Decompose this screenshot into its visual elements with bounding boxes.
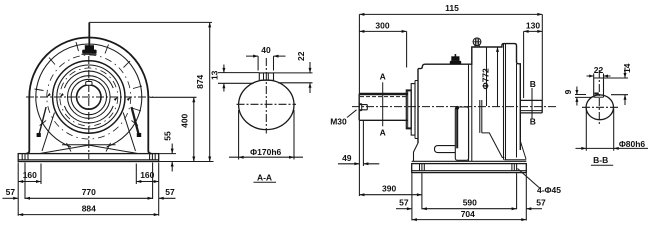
dimension 57 left (side view): [396, 198, 412, 211]
svg-text:B: B: [530, 79, 536, 89]
clamp bolt left: [37, 107, 47, 137]
extension lines bottom (side view): [412, 173, 526, 220]
breather plug: [473, 38, 481, 47]
base plate (side view): [412, 164, 527, 173]
base plate (front view): [18, 154, 159, 162]
svg-text:390: 390: [382, 184, 396, 194]
label 4-phi45 with leader: [518, 169, 562, 196]
svg-text:590: 590: [463, 198, 477, 208]
svg-text:Φ170h6: Φ170h6: [250, 147, 281, 157]
dimension 770: [25, 187, 153, 200]
grease fitting (side view): [450, 54, 461, 64]
B-B centerlines: [582, 70, 619, 126]
dimension 390: [359, 184, 422, 197]
ring case internal lines: [480, 44, 517, 160]
svg-text:22: 22: [296, 51, 306, 61]
centerline vertical (front view): [88, 56, 90, 159]
dimension 22 (A-A): [274, 51, 313, 93]
dimension 57 right (side view): [526, 198, 546, 211]
svg-text:400: 400: [179, 113, 189, 127]
svg-text:55: 55: [163, 131, 173, 141]
svg-text:300: 300: [375, 21, 389, 31]
svg-text:57: 57: [536, 198, 546, 208]
housing boss circle r36: [53, 61, 125, 133]
dimension 130: [524, 21, 543, 99]
section line A-A: [380, 72, 386, 138]
oil drain boss: [435, 146, 456, 153]
svg-text:A: A: [380, 128, 386, 138]
svg-text:57: 57: [6, 187, 16, 197]
B-B key: [594, 78, 604, 97]
dimension 13: [209, 65, 259, 92]
svg-text:40: 40: [261, 45, 271, 55]
input bearing cover: [406, 81, 418, 139]
dimension 40: [246, 45, 286, 71]
housing arch outline: [26, 38, 151, 154]
shaft bore circle r12.2: [77, 85, 101, 109]
dimension 9: [563, 87, 593, 106]
svg-text:B: B: [530, 117, 536, 127]
dimension 57 right bottom: [159, 187, 176, 200]
circle r32: [57, 65, 121, 129]
dimension 300: [359, 21, 406, 68]
clamp bolt right: [132, 107, 142, 137]
svg-text:Φ80h6: Φ80h6: [619, 139, 646, 149]
svg-text:4-Φ45: 4-Φ45: [537, 185, 561, 195]
label A-A: [254, 172, 277, 182]
svg-text:A: A: [380, 72, 386, 82]
svg-text:22: 22: [594, 65, 604, 75]
svg-text:57: 57: [165, 187, 175, 197]
dimension 160 right: [136, 164, 158, 185]
oil gauge: [455, 107, 468, 160]
dimension 55 (base height): [159, 131, 176, 171]
svg-text:M30: M30: [330, 117, 347, 127]
centerline (side view): [352, 106, 556, 108]
svg-text:13: 13: [209, 70, 219, 80]
svg-text:14: 14: [622, 63, 632, 73]
dimension 704: [412, 209, 526, 221]
svg-text:704: 704: [461, 209, 475, 219]
circle r21.3: [68, 76, 111, 119]
body bottom / feet: [412, 141, 527, 161]
A-A shaft circle: [239, 80, 294, 130]
svg-text:A-A: A-A: [257, 172, 272, 182]
dimension 400: [150, 97, 197, 161]
svg-text:B-B: B-B: [593, 155, 608, 165]
chain arc r53 with ticks: [35, 42, 143, 152]
dimension phi80h6: [576, 109, 649, 151]
body front face inner lines: [469, 64, 472, 161]
A-A centerlines: [237, 58, 297, 134]
dipstick: [455, 106, 459, 148]
dimension 115: [359, 3, 542, 100]
svg-text:57: 57: [399, 198, 409, 208]
svg-text:Φ772: Φ772: [480, 68, 490, 89]
dimension 14: [604, 63, 632, 105]
label B-B: [591, 155, 613, 165]
phi772 dimension: [480, 47, 499, 107]
circle r26: [64, 71, 113, 123]
chain circle r42 with arrowheads: [47, 55, 131, 139]
grease fitting (front view): [82, 45, 97, 54]
circle r17.7: [71, 79, 106, 114]
bore keyway: [86, 82, 92, 86]
output shaft stub: [520, 100, 542, 113]
dimension 57 left bottom: [3, 187, 19, 200]
svg-text:770: 770: [82, 187, 96, 197]
dimension phi170h6: [229, 110, 303, 160]
dimension 160 left: [18, 164, 41, 185]
dimension 590: [422, 198, 517, 211]
body front outline: [418, 44, 520, 150]
svg-text:115: 115: [445, 3, 459, 13]
A-A keyseat extension line: [218, 82, 254, 84]
svg-text:49: 49: [342, 153, 352, 163]
svg-text:130: 130: [526, 21, 540, 31]
rib trapezoid and gussets: [41, 113, 138, 154]
input shaft: [359, 94, 408, 121]
svg-text:874: 874: [195, 74, 205, 88]
A-A key: [259, 73, 273, 81]
dimension 22 (B-B): [587, 65, 611, 78]
dimension 884: [18, 204, 159, 217]
svg-text:9: 9: [563, 89, 573, 94]
extension lines bottom left view: [18, 163, 159, 216]
vent pipe: [88, 22, 90, 45]
dimension 874: [89, 22, 213, 161]
dimension 49: [338, 120, 379, 196]
M30 tapped hole: [359, 104, 367, 111]
svg-text:884: 884: [82, 204, 96, 214]
B-B shaft circle: [586, 95, 613, 120]
chain circle r29 with arrowheads: [60, 68, 118, 126]
section line B-B: [530, 79, 536, 127]
centerline horizontal (front view): [26, 96, 153, 98]
M30 label and leader: [330, 110, 356, 127]
